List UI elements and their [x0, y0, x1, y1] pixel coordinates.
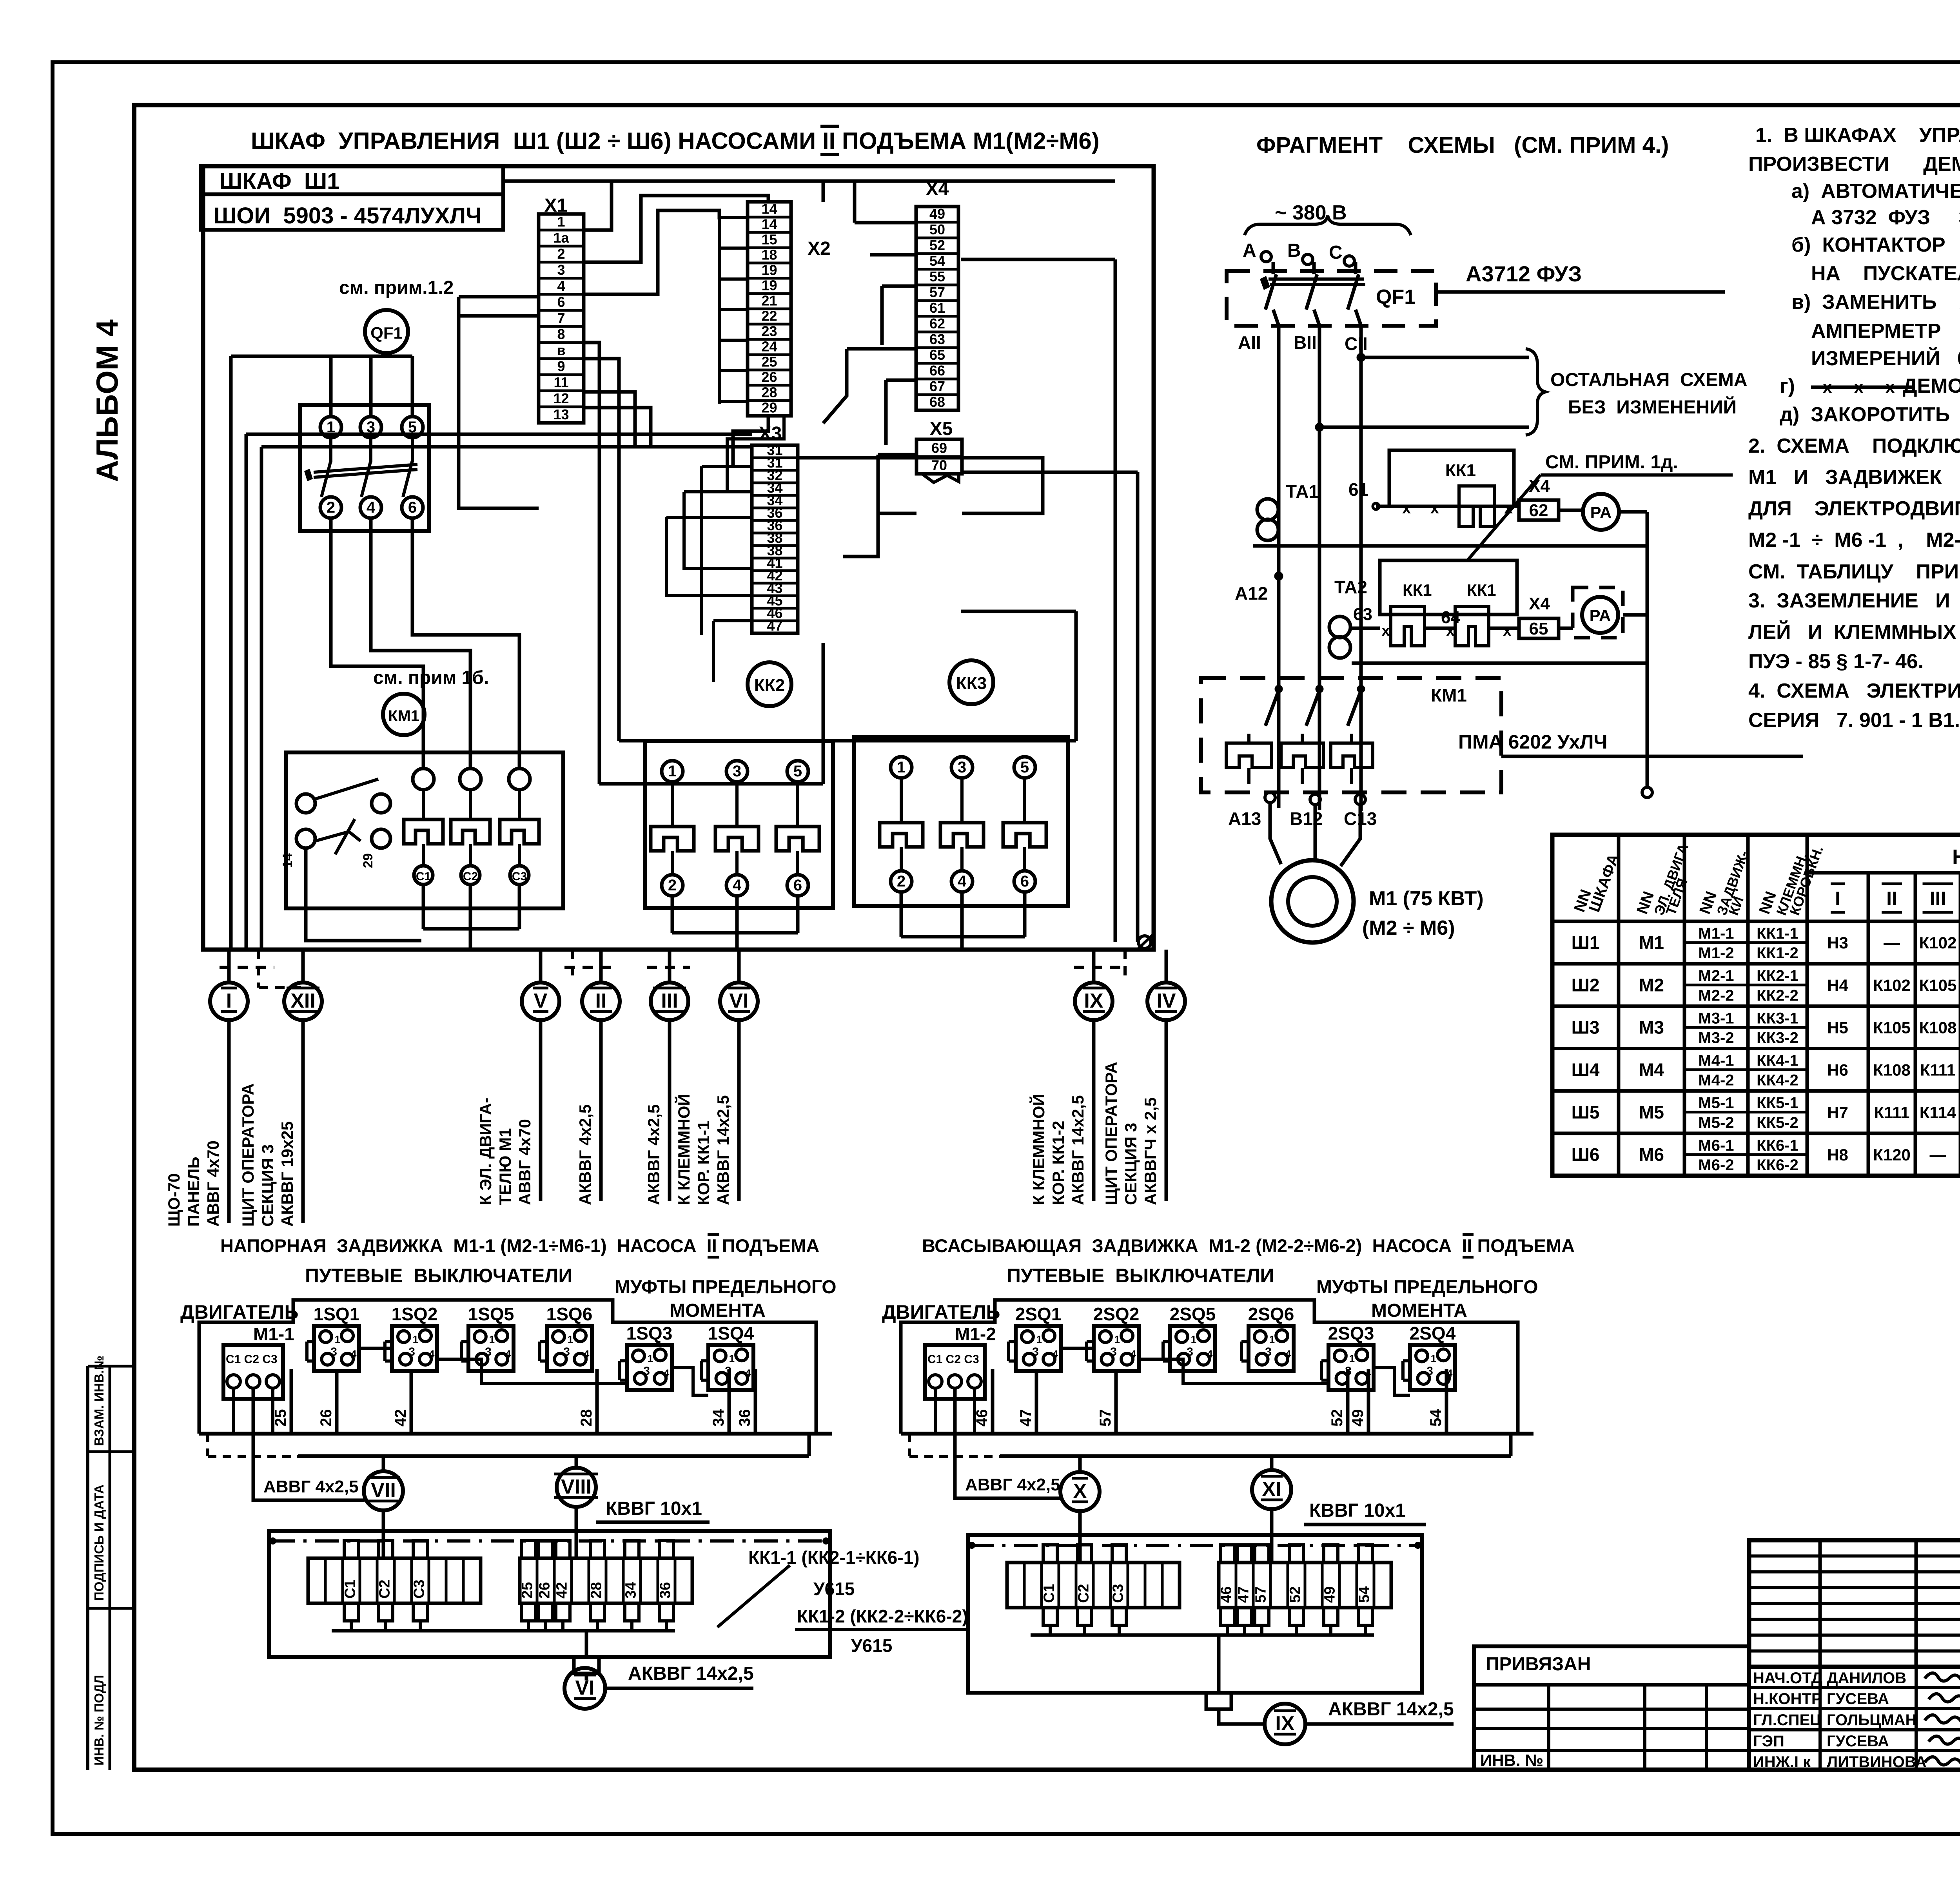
- svg-text:12: 12: [553, 390, 569, 406]
- wire PA2 to trunk: [1623, 613, 1647, 617]
- svg-text:6: 6: [793, 877, 802, 894]
- svg-text:ИНЖ.I к: ИНЖ.I к: [1753, 1753, 1811, 1771]
- svg-text:КК1: КК1: [1445, 461, 1476, 480]
- svg-text:КК6-2: КК6-2: [1757, 1157, 1798, 1174]
- svg-text:4: 4: [664, 1367, 670, 1379]
- svg-text:II: II: [1886, 888, 1897, 910]
- svg-text:Ш1: Ш1: [1572, 932, 1600, 953]
- right strip numbered: [1219, 1563, 1391, 1608]
- svg-text:26: 26: [537, 1582, 553, 1599]
- svg-text:1: 1: [413, 1334, 418, 1345]
- svg-text:СII: СII: [1345, 334, 1368, 354]
- svg-text:Н7: Н7: [1827, 1103, 1848, 1122]
- svg-text:—: —: [1884, 934, 1900, 952]
- svg-text:КК5-2: КК5-2: [1757, 1114, 1798, 1131]
- svg-text:1: 1: [897, 759, 906, 776]
- svg-text:47: 47: [1017, 1409, 1034, 1427]
- svg-text:ЩИТ ОПЕРАТОРА: ЩИТ ОПЕРАТОРА: [1102, 1062, 1120, 1205]
- svg-text:ПУТЕВЫЕ ВЫКЛЮЧАТЕЛИ: ПУТЕВЫЕ ВЫКЛЮЧАТЕЛИ: [305, 1265, 572, 1287]
- svg-text:Ш3: Ш3: [1572, 1017, 1600, 1037]
- QF1 pin 2: [320, 497, 341, 518]
- cabinet Ш1 outline: [203, 166, 1154, 950]
- svg-text:14: 14: [761, 216, 777, 232]
- trunk PA: [1646, 512, 1649, 788]
- svg-text:2SQ1: 2SQ1: [1015, 1304, 1062, 1324]
- binder box Привязан: [1474, 1646, 1749, 1770]
- KM1 label leader PMA: [1501, 755, 1803, 758]
- brace rest of scheme: [1526, 349, 1545, 435]
- svg-text:49: 49: [1322, 1586, 1338, 1603]
- terminal box outline: [968, 1535, 1422, 1693]
- svg-text:9: 9: [557, 358, 565, 374]
- cabinet bottom bus: [203, 948, 1154, 952]
- svg-text:Ш2: Ш2: [1572, 975, 1600, 995]
- relay KK1 row2 box: [1380, 560, 1517, 615]
- svg-text:69: 69: [931, 440, 947, 456]
- svg-text:VII: VII: [371, 1479, 396, 1502]
- svg-text:КК1-2 (КК2-2÷КК6-2): КК1-2 (КК2-2÷КК6-2): [797, 1606, 968, 1626]
- svg-text:1: 1: [729, 1353, 735, 1365]
- svg-text:М2: М2: [1639, 975, 1664, 995]
- svg-text:54: 54: [1356, 1586, 1373, 1603]
- svg-text:57: 57: [1097, 1409, 1114, 1427]
- QF1 fragment poles: [1272, 262, 1275, 274]
- svg-text:1SQ6: 1SQ6: [546, 1304, 593, 1324]
- svg-text:ПРИВЯЗАН: ПРИВЯЗАН: [1486, 1654, 1591, 1675]
- svg-text:15: 15: [761, 231, 777, 247]
- svg-text:С: С: [1329, 242, 1343, 263]
- svg-text:Н6: Н6: [1827, 1061, 1848, 1079]
- svg-text:1SQ5: 1SQ5: [468, 1304, 514, 1324]
- demontage strike mark: [1811, 386, 1913, 389]
- svg-text:С1 С2 С3: С1 С2 С3: [226, 1353, 278, 1366]
- svg-text:29: 29: [761, 399, 777, 415]
- svg-text:42: 42: [392, 1409, 409, 1427]
- svg-text:3: 3: [958, 759, 966, 776]
- svg-text:~ 380 В: ~ 380 В: [1275, 201, 1347, 224]
- svg-text:КК4-2: КК4-2: [1757, 1072, 1798, 1089]
- svg-text:АЛЬБОМ 4: АЛЬБОМ 4: [90, 319, 124, 482]
- svg-text:К102: К102: [1873, 976, 1911, 994]
- svg-text:МОМЕНТА: МОМЕНТА: [1371, 1300, 1467, 1321]
- KK3 element 1: [891, 757, 912, 778]
- svg-text:М6-1: М6-1: [1698, 1137, 1734, 1154]
- svg-text:4: 4: [429, 1348, 435, 1360]
- svg-text:II: II: [595, 990, 607, 1012]
- svg-text:ТА2: ТА2: [1334, 577, 1367, 597]
- svg-text:А3712 ФУЗ: А3712 ФУЗ: [1466, 261, 1582, 286]
- svg-text:4: 4: [733, 877, 742, 894]
- svg-text:х: х: [1823, 378, 1832, 396]
- wire X5 stubs: [878, 453, 916, 457]
- svg-text:ГЭП: ГЭП: [1753, 1733, 1784, 1750]
- svg-text:6: 6: [1020, 873, 1029, 890]
- svg-text:3: 3: [643, 1365, 650, 1378]
- svg-text:2. СХЕМА ПОДКЛЮЧЕНИЯ ДА: 2. СХЕМА ПОДКЛЮЧЕНИЯ ДАНА ДЛЯ ЭЛЕКТРОДВИ…: [1748, 435, 1960, 457]
- svg-text:ШОИ 5903 - 4574ЛУХЛЧ: ШОИ 5903 - 4574ЛУХЛЧ: [214, 203, 482, 228]
- earth mark: [1138, 936, 1151, 948]
- svg-text:3. ЗАЗЕМЛЕНИЕ И ЗАНУЛЕНИЕ: 3. ЗАЗЕМЛЕНИЕ И ЗАНУЛЕНИЕ ШКАФОВ, ЭЛЕКТР…: [1748, 589, 1960, 612]
- KK2 element 1: [662, 761, 683, 782]
- svg-text:42: 42: [554, 1582, 570, 1599]
- svg-text:ИНВ. № ПОДЛ: ИНВ. № ПОДЛ: [92, 1675, 106, 1766]
- svg-text:К105: К105: [1919, 976, 1957, 994]
- svg-text:1: 1: [1191, 1334, 1196, 1345]
- svg-text:Н.КОНТР: Н.КОНТР: [1753, 1690, 1822, 1708]
- svg-text:х: х: [1504, 500, 1513, 517]
- svg-text:ЩИТ ОПЕРАТОРА: ЩИТ ОПЕРАТОРА: [239, 1083, 257, 1227]
- svg-text:К114: К114: [1920, 1103, 1956, 1122]
- svg-text:К108: К108: [1919, 1018, 1957, 1037]
- svg-text:д) ЗАКОРОТИТЬ КОНЦЫ 61: д) ЗАКОРОТИТЬ КОНЦЫ 61- 62 , 63- 65 ;: [1780, 403, 1960, 426]
- collector line: [1031, 1633, 1374, 1637]
- svg-text:XI: XI: [1262, 1478, 1281, 1501]
- svg-text:К105: К105: [1873, 1018, 1911, 1037]
- collector line: [332, 1629, 675, 1633]
- wire phase A down: [1273, 310, 1279, 808]
- svg-text:3: 3: [557, 262, 565, 278]
- svg-text:14: 14: [280, 853, 295, 868]
- svg-text:61: 61: [929, 300, 945, 316]
- svg-text:МОМЕНТА: МОМЕНТА: [670, 1300, 766, 1321]
- svg-text:4: 4: [745, 1367, 751, 1379]
- svg-text:4: 4: [557, 278, 565, 294]
- svg-text:5: 5: [793, 763, 802, 780]
- svg-text:АКВВГ 14х2,5: АКВВГ 14х2,5: [628, 1663, 754, 1684]
- thermal relay KK2 box: [645, 741, 833, 908]
- svg-text:1: 1: [335, 1334, 340, 1345]
- bus dashed row: [220, 966, 274, 969]
- wire cable IX: [1092, 950, 1096, 983]
- svg-text:х: х: [1430, 500, 1439, 517]
- motor M1: [1271, 860, 1354, 943]
- svg-text:К КЛЕММНОЙ: К КЛЕММНОЙ: [1029, 1094, 1048, 1205]
- wire dashed stub I: [257, 950, 260, 988]
- cabinet label box Шкаф Ш1: [201, 166, 503, 230]
- svg-text:65: 65: [929, 347, 945, 363]
- svg-text:АВВГ 4х2,5: АВВГ 4х2,5: [965, 1475, 1060, 1494]
- svg-text:2: 2: [327, 499, 335, 516]
- svg-text:2: 2: [557, 246, 565, 262]
- svg-text:3: 3: [1110, 1345, 1117, 1358]
- top heading band line: [134, 103, 1960, 107]
- svg-text:РА: РА: [1590, 606, 1611, 625]
- svg-text:М1-1: М1-1: [1698, 925, 1734, 942]
- svg-text:49: 49: [929, 206, 945, 222]
- svg-text:ПМА 6202 УхЛЧ: ПМА 6202 УхЛЧ: [1458, 731, 1608, 753]
- thermal relay KK3 box: [854, 737, 1068, 906]
- wire X2 left stubs: [719, 216, 748, 219]
- svg-text:А13: А13: [1228, 809, 1261, 829]
- QF1 switch contacts: [329, 438, 332, 462]
- svg-text:X2: X2: [808, 238, 831, 259]
- svg-text:Н5: Н5: [1827, 1018, 1848, 1037]
- svg-text:НАЧ.ОТД: НАЧ.ОТД: [1753, 1670, 1822, 1687]
- svg-text:4: 4: [958, 873, 967, 890]
- motor terminals A13 B12 C13: [1265, 792, 1275, 803]
- svg-text:VI: VI: [729, 990, 748, 1012]
- svg-text:1а: 1а: [553, 230, 569, 246]
- svg-text:ВСАСЫВАЮЩАЯ ЗАДВИЖКА М1-2 (М: ВСАСЫВАЮЩАЯ ЗАДВИЖКА М1-2 (М2-2÷М6-2) НА…: [922, 1235, 1575, 1256]
- svg-text:ИНВ. №: ИНВ. №: [1480, 1751, 1543, 1769]
- svg-text:1: 1: [1036, 1334, 1042, 1345]
- svg-text:ПУТЕВЫЕ ВЫКЛЮЧАТЕЛИ: ПУТЕВЫЕ ВЫКЛЮЧАТЕЛИ: [1007, 1265, 1274, 1287]
- svg-text:34: 34: [710, 1409, 727, 1427]
- KK3 element 3: [1014, 757, 1035, 778]
- svg-text:в) ЗАМЕНИТЬ АМПЕРМЕТР Э-: в) ЗАМЕНИТЬ АМПЕРМЕТР Э-377 НА: [1791, 291, 1960, 314]
- wire X1 left stubs: [459, 295, 539, 299]
- svg-text:ГЛ.СПЕЦ: ГЛ.СПЕЦ: [1753, 1711, 1821, 1729]
- svg-text:ПОДПИСЬ И ДАТА: ПОДПИСЬ И ДАТА: [92, 1485, 106, 1601]
- KM1 coil C3: [509, 769, 530, 790]
- svg-text:63: 63: [929, 331, 945, 347]
- svg-text:63: 63: [1353, 605, 1372, 624]
- QF1 pin 1: [320, 417, 341, 438]
- svg-text:Ш4: Ш4: [1572, 1060, 1600, 1080]
- svg-text:С1: С1: [342, 1579, 359, 1599]
- svg-text:1: 1: [1269, 1334, 1275, 1345]
- svg-text:4: 4: [351, 1348, 357, 1360]
- terminal box outline: [269, 1531, 830, 1657]
- svg-text:У615: У615: [813, 1579, 855, 1599]
- svg-text:18: 18: [761, 247, 777, 263]
- svg-text:х: х: [1854, 378, 1864, 396]
- svg-text:АМПЕРМЕТР Э-365; КЛ. 1,5: АМПЕРМЕТР Э-365; КЛ. 1,5 , ПРЕДЕЛ: [1811, 320, 1960, 343]
- svg-text:2SQ6: 2SQ6: [1248, 1304, 1294, 1324]
- svg-text:19: 19: [761, 262, 777, 278]
- svg-text:М4-2: М4-2: [1698, 1072, 1734, 1089]
- svg-text:1: 1: [1431, 1353, 1436, 1365]
- wire TA1 tap: [1253, 544, 1647, 548]
- KM1 coil C2: [460, 769, 481, 790]
- wire QF1 label leader: [1436, 290, 1725, 294]
- left strip C1 C2 C3: [1007, 1563, 1180, 1608]
- svg-text:1: 1: [1349, 1353, 1355, 1365]
- svg-text:М4-1: М4-1: [1698, 1052, 1734, 1070]
- svg-text:13: 13: [553, 406, 569, 422]
- cable circle VI: [564, 1668, 605, 1709]
- svg-text:7: 7: [557, 310, 565, 326]
- wire trunk left: [229, 356, 233, 950]
- svg-text:М2 -1 ÷ М6 -1 , М2- 2: М2 -1 ÷ М6 -1 , М2- 2 ÷ М6 - 2 СХЕМА АНА…: [1748, 529, 1960, 551]
- terminal number drops: [290, 1369, 293, 1434]
- svg-text:К КЛЕММНОЙ: К КЛЕММНОЙ: [674, 1094, 693, 1205]
- QF1 pin 4: [360, 497, 381, 518]
- svg-text:50: 50: [929, 221, 945, 237]
- svg-text:1: 1: [1114, 1334, 1120, 1345]
- svg-text:4: 4: [1053, 1348, 1058, 1360]
- svg-text:КМ1: КМ1: [1431, 685, 1467, 705]
- wire cable V: [539, 950, 543, 983]
- svg-text:КК2-2: КК2-2: [1757, 987, 1798, 1004]
- svg-text:М1-1: М1-1: [253, 1324, 294, 1344]
- svg-text:1: 1: [557, 214, 565, 230]
- svg-text:5: 5: [1020, 759, 1029, 776]
- svg-text:КК3: КК3: [956, 674, 987, 693]
- svg-text:КВВГ 10х1: КВВГ 10х1: [1309, 1500, 1406, 1521]
- svg-text:14: 14: [761, 201, 777, 217]
- svg-text:(М2 ÷ М6): (М2 ÷ М6): [1362, 917, 1455, 939]
- svg-text:52: 52: [929, 237, 945, 253]
- svg-text:см. прим.1.2: см. прим.1.2: [339, 277, 454, 298]
- svg-text:С1: С1: [1041, 1584, 1058, 1603]
- QF1 pin 5: [402, 417, 423, 438]
- svg-text:А12: А12: [1235, 583, 1268, 604]
- svg-text:в: в: [557, 342, 565, 358]
- svg-text:8: 8: [557, 326, 565, 342]
- svg-text:1SQ1: 1SQ1: [314, 1304, 360, 1324]
- wire X2 bottom links: [733, 416, 768, 466]
- svg-text:МУФТЫ ПРЕДЕЛЬНОГО: МУФТЫ ПРЕДЕЛЬНОГО: [1316, 1277, 1538, 1298]
- wire row2 return: [1352, 662, 1647, 665]
- svg-text:М3: М3: [1639, 1017, 1664, 1037]
- svg-text:х: х: [1446, 623, 1454, 639]
- signature rows: [1749, 1665, 1960, 1668]
- wire KM1 outputs: [422, 885, 425, 929]
- bottom bus: [901, 1432, 1534, 1436]
- wire X3 left stubs: [702, 465, 752, 468]
- svg-text:АКВВГ 14х2,5: АКВВГ 14х2,5: [714, 1095, 732, 1205]
- KM1 fragment heaters: [1226, 743, 1272, 768]
- svg-text:АКВВГ 14х2,5: АКВВГ 14х2,5: [1069, 1095, 1087, 1205]
- right strip numbered: [520, 1558, 692, 1603]
- svg-text:АКВВГ 4х2,5: АКВВГ 4х2,5: [644, 1104, 663, 1205]
- svg-text:1. В ШКАФАХ УПРАВЛЕНИЯ: 1. В ШКАФАХ УПРАВЛЕНИЯ Ш1 ÷ Ш6: [1755, 124, 1960, 147]
- svg-text:СМ. ПРИМ. 1д.: СМ. ПРИМ. 1д.: [1545, 452, 1678, 473]
- terminal number drops: [991, 1369, 995, 1434]
- svg-text:АКВВГ 14х2,5: АКВВГ 14х2,5: [1328, 1699, 1454, 1720]
- svg-text:4: 4: [505, 1348, 511, 1360]
- svg-text:АII: АII: [1238, 332, 1261, 353]
- svg-text:57: 57: [1253, 1586, 1269, 1603]
- svg-text:24: 24: [761, 338, 777, 354]
- wire phase C down: [1356, 310, 1361, 811]
- svg-text:МУФТЫ ПРЕДЕЛЬНОГО: МУФТЫ ПРЕДЕЛЬНОГО: [615, 1277, 837, 1298]
- KM1 coil C1: [413, 769, 434, 790]
- svg-text:А 3732 ФУЗ ЗАМЕНИТЬ Н: А 3732 ФУЗ ЗАМЕНИТЬ НА А 3712 ФУЗ.: [1811, 206, 1960, 229]
- svg-text:I: I: [1835, 888, 1840, 910]
- svg-text:3: 3: [1032, 1345, 1039, 1358]
- svg-text:КК5-1: КК5-1: [1757, 1095, 1798, 1112]
- svg-text:28: 28: [578, 1409, 595, 1427]
- left margin column boxes: [86, 1366, 89, 1770]
- svg-text:ФРАГМЕНТ СХЕМЫ (СМ. ПРИМ: ФРАГМЕНТ СХЕМЫ (СМ. ПРИМ 4.): [1256, 132, 1669, 158]
- svg-text:62: 62: [1529, 501, 1548, 520]
- svg-text:М1 И ЗАДВИЖЕК М1-1 ; М: М1 И ЗАДВИЖЕК М1-1 ; М1- 2.: [1748, 466, 1960, 489]
- svg-text:2: 2: [668, 877, 677, 894]
- svg-text:ГОЛЬЦМАН: ГОЛЬЦМАН: [1827, 1711, 1916, 1729]
- wire motor leads: [1270, 803, 1281, 864]
- svg-text:КК3-1: КК3-1: [1757, 1010, 1798, 1027]
- svg-text:6: 6: [408, 499, 417, 516]
- dashed link: [206, 1434, 209, 1456]
- relay KK1 row1 box: [1389, 450, 1514, 506]
- svg-text:СМ. ТАБЛИЦУ ПРИМЕНЕНИЯ.: СМ. ТАБЛИЦУ ПРИМЕНЕНИЯ.: [1748, 560, 1960, 583]
- svg-text:б) КОНТАКТОР КТ 6043 СУЗ: б) КОНТАКТОР КТ 6043 СУЗ ( КМ 1) ЗАМЕНИТ…: [1791, 234, 1960, 256]
- title block small grid: [1749, 1540, 1960, 1667]
- svg-text:КК2: КК2: [754, 676, 785, 695]
- svg-text:Н4: Н4: [1827, 976, 1848, 994]
- svg-text:КК1-1 (КК2-1÷КК6-1): КК1-1 (КК2-1÷КК6-1): [748, 1547, 920, 1568]
- svg-text:СЕРИЯ 7. 901 - 1 В1.: СЕРИЯ 7. 901 - 1 В1.: [1748, 709, 1960, 732]
- ammeter PA2 dashed: [1573, 587, 1623, 638]
- svg-text:3: 3: [563, 1345, 570, 1358]
- svg-text:36: 36: [736, 1409, 753, 1427]
- svg-text:У615: У615: [851, 1635, 892, 1656]
- wire cable XII: [301, 950, 305, 983]
- svg-text:23: 23: [761, 323, 777, 339]
- svg-text:X5: X5: [930, 419, 953, 439]
- svg-text:4: 4: [584, 1348, 590, 1360]
- svg-text:КОР. КК1-1: КОР. КК1-1: [694, 1121, 713, 1205]
- svg-text:1SQ2: 1SQ2: [392, 1304, 438, 1324]
- svg-text:К108: К108: [1873, 1061, 1911, 1079]
- svg-text:К120: К120: [1873, 1146, 1911, 1164]
- svg-text:М6-2: М6-2: [1698, 1157, 1734, 1174]
- svg-text:НА ПУСКАТЕЛЬ ПМА 6202: НА ПУСКАТЕЛЬ ПМА 6202 УХЛЧ.: [1811, 262, 1960, 285]
- svg-text:М5-2: М5-2: [1698, 1114, 1734, 1131]
- dash-dot bus: [970, 1544, 1419, 1547]
- svg-text:К ЭЛ. ДВИГА-: К ЭЛ. ДВИГА-: [476, 1098, 495, 1205]
- svg-text:55: 55: [929, 268, 945, 285]
- dashed link: [908, 1434, 911, 1456]
- VII VIII entries: [382, 1531, 385, 1558]
- svg-text:2SQ4: 2SQ4: [1410, 1323, 1456, 1343]
- svg-text:К111: К111: [1874, 1103, 1909, 1122]
- svg-text:61: 61: [1348, 479, 1368, 500]
- svg-text:68: 68: [929, 394, 945, 410]
- svg-text:х: х: [1381, 623, 1390, 639]
- svg-text:52: 52: [1328, 1409, 1346, 1427]
- KK2 element 2: [726, 761, 748, 782]
- svg-text:2: 2: [897, 873, 906, 890]
- svg-text:1SQ4: 1SQ4: [708, 1323, 754, 1343]
- svg-text:22: 22: [761, 308, 777, 324]
- svg-text:VIII: VIII: [561, 1476, 592, 1498]
- svg-text:36: 36: [657, 1582, 674, 1599]
- svg-text:Ш6: Ш6: [1572, 1144, 1600, 1165]
- svg-text:ТЕЛЮ М1: ТЕЛЮ М1: [496, 1128, 514, 1205]
- svg-text:3: 3: [1426, 1365, 1433, 1378]
- application table grid: [1552, 835, 1960, 1176]
- svg-text:25: 25: [272, 1409, 289, 1427]
- svg-text:1: 1: [668, 763, 677, 780]
- contactor KM1 box: [286, 752, 563, 908]
- thermal relay KK2 designator: [748, 662, 791, 706]
- svg-text:ШКАФ УПРАВЛЕНИЯ Ш1 (Ш2 ÷ Ш6): ШКАФ УПРАВЛЕНИЯ Ш1 (Ш2 ÷ Ш6) НАСОСАМИ II…: [251, 128, 1100, 154]
- ammeter PA1: [1583, 494, 1619, 530]
- svg-text:ДЛЯ ЭЛЕКТРОДВИГАТЕЛЕЙ М2: ДЛЯ ЭЛЕКТРОДВИГАТЕЛЕЙ М2 ÷ М6 И ЗАДВИЖЕК: [1748, 497, 1960, 520]
- svg-text:КВВГ 10х1: КВВГ 10х1: [606, 1498, 702, 1519]
- svg-text:4: 4: [1285, 1348, 1291, 1360]
- switch group outline: [901, 1300, 1518, 1434]
- svg-text:3: 3: [1187, 1345, 1193, 1358]
- svg-text:49: 49: [1349, 1409, 1367, 1427]
- svg-text:К102: К102: [1919, 934, 1957, 952]
- wire cable II: [599, 950, 603, 983]
- svg-text:26: 26: [318, 1409, 335, 1427]
- svg-text:КК6-1: КК6-1: [1757, 1137, 1798, 1154]
- svg-text:IV: IV: [1156, 990, 1176, 1012]
- svg-text:ОСТАЛЬНАЯ СХЕМА: ОСТАЛЬНАЯ СХЕМА: [1550, 370, 1748, 390]
- svg-text:АКВВГ 4х2,5: АКВВГ 4х2,5: [576, 1104, 594, 1205]
- svg-text:V: V: [534, 990, 548, 1012]
- svg-text:11: 11: [554, 374, 568, 390]
- wire PA1 to trunk: [1619, 510, 1647, 514]
- svg-text:В12: В12: [1290, 809, 1323, 829]
- svg-text:I: I: [226, 990, 232, 1012]
- KM1 aux contact: [296, 794, 315, 813]
